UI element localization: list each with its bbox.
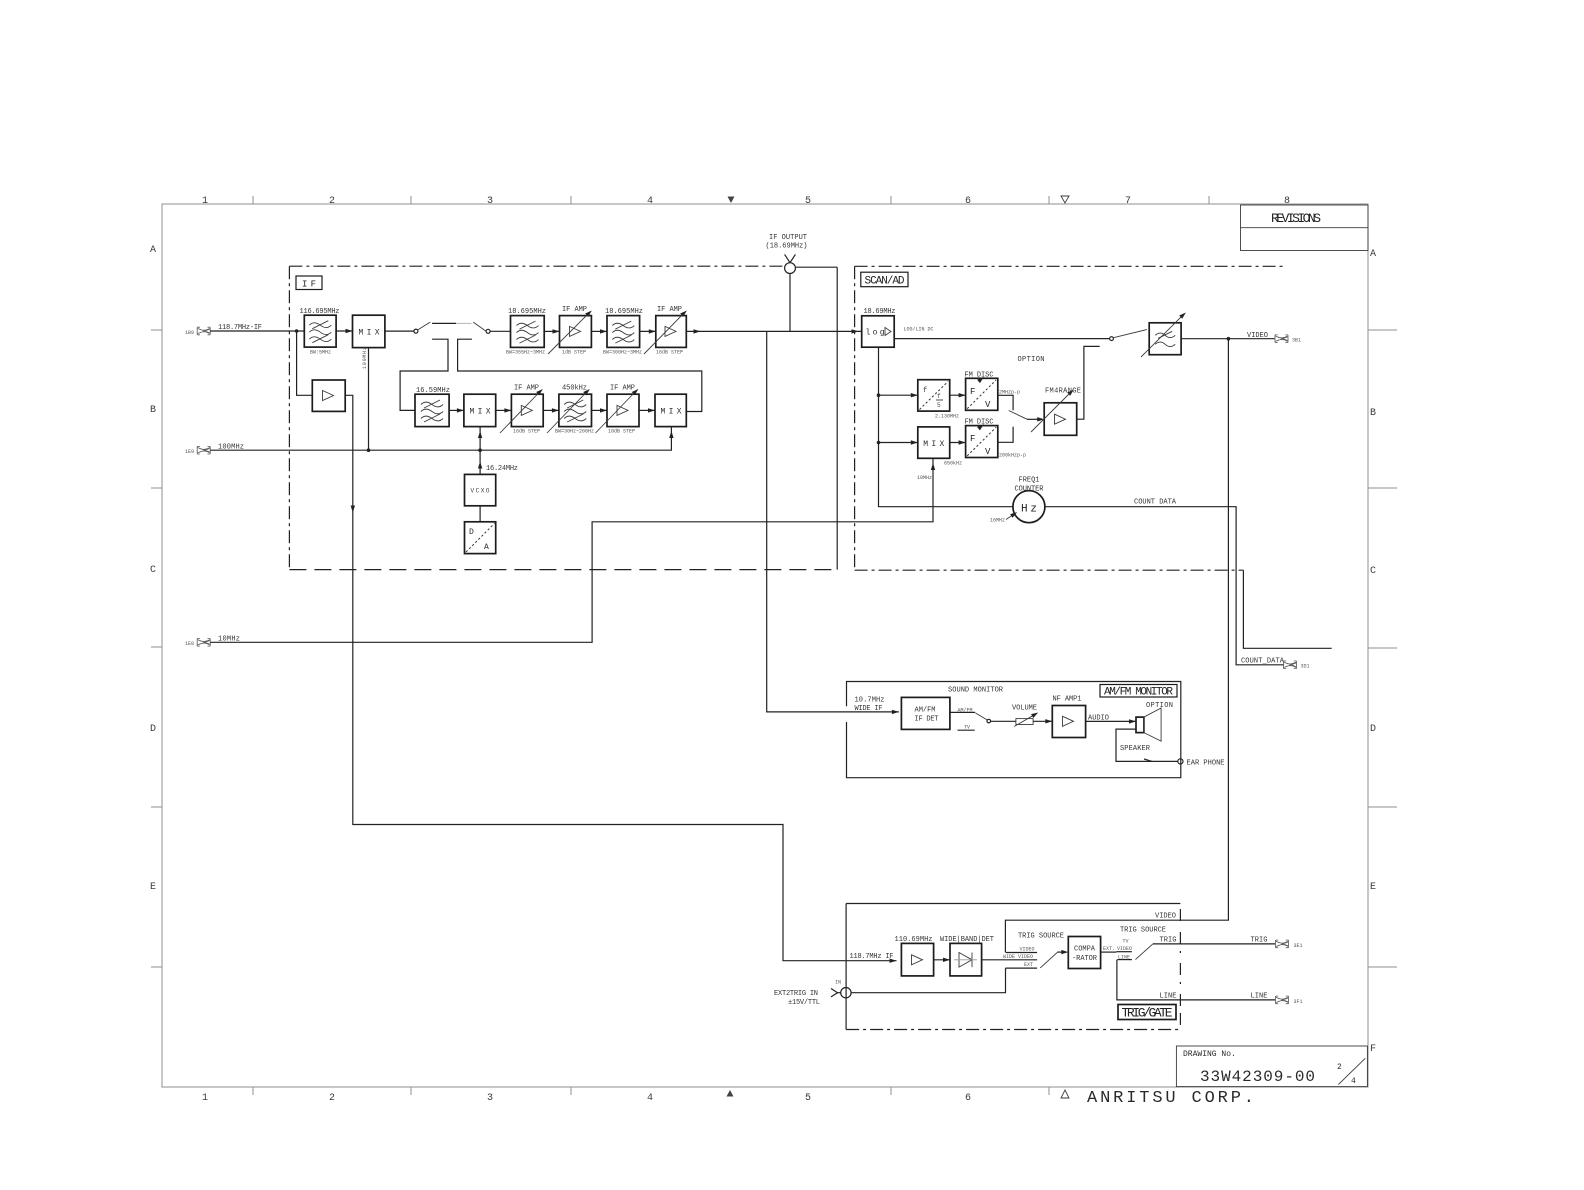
svg-text:3D1: 3D1	[1301, 664, 1310, 670]
mixer MIX3	[655, 394, 686, 426]
SCAN/AD enclosure left edge	[854, 266, 856, 570]
svg-text:TRIG SOURCE: TRIG SOURCE	[1018, 933, 1064, 941]
filter FL5 450kHz	[547, 385, 594, 435]
svg-text:IF AMP: IF AMP	[657, 306, 682, 314]
svg-text:5: 5	[937, 402, 941, 409]
svg-text:650kHz: 650kHz	[944, 461, 962, 467]
wire log amp branch down	[877, 347, 1013, 507]
wire DET output to WIDE VIDEO contact	[982, 954, 1038, 960]
svg-text:COMPA: COMPA	[1074, 946, 1096, 954]
svg-text:VIDEO: VIDEO	[1117, 946, 1132, 952]
svg-text:AUDIO: AUDIO	[1088, 715, 1109, 723]
detector U6 AM/FM IF DET	[901, 697, 950, 729]
svg-text:6: 6	[965, 1093, 971, 1104]
mixer MIX4 (scan)	[918, 427, 950, 458]
wire f/5 to FM DISC1	[950, 393, 966, 397]
svg-text:MIX: MIX	[923, 440, 944, 449]
wire branch to f/5	[879, 393, 918, 397]
TRIG/GATE name box	[1118, 1005, 1176, 1020]
amplifier A8 NF AMP1	[1052, 696, 1085, 738]
wire switch to volume	[991, 720, 1016, 722]
filter FL3 18.695MHz	[603, 308, 643, 356]
wire count data spur	[1243, 570, 1331, 648]
svg-text:16.59MHz: 16.59MHz	[416, 387, 450, 395]
svg-text:BW=300Hz~3MHz: BW=300Hz~3MHz	[603, 350, 642, 356]
svg-text:IF: IF	[302, 280, 316, 290]
wire 100MHz input line	[210, 448, 482, 452]
converter D/A	[465, 522, 496, 554]
svg-text:EXT.: EXT.	[1103, 946, 1115, 952]
comparator U8	[1068, 937, 1100, 969]
svg-text:COUNTER: COUNTER	[1015, 486, 1045, 494]
revision markers	[728, 197, 735, 204]
connector 3E1 TRIG	[1276, 940, 1303, 949]
svg-text:A: A	[1370, 249, 1376, 260]
node IF OUTPUT connector	[766, 234, 808, 331]
potentiometer VOLUME	[1012, 705, 1039, 727]
wire 10.7MHz WIDE IF feed to monitor	[767, 331, 899, 714]
svg-text:log: log	[866, 329, 885, 338]
svg-text:MIX: MIX	[470, 407, 491, 416]
amplifier A5 IF AMP 10dB STEP	[596, 385, 640, 435]
svg-text:VCXO: VCXO	[471, 488, 490, 495]
discriminator U4 FM DISC (F/V)	[965, 419, 1027, 459]
wire 10MHz reference line	[210, 458, 962, 642]
wire A5 to MIX3	[639, 408, 655, 412]
wire LINE output	[1117, 960, 1275, 1001]
wire IF DET to switch	[950, 708, 975, 714]
mixer MIX2	[464, 394, 496, 426]
wire FL4 to MIX2	[449, 408, 464, 412]
svg-text:TV: TV	[1123, 939, 1129, 945]
svg-text:TRIG: TRIG	[1251, 937, 1268, 945]
svg-text:SPEAKER: SPEAKER	[1120, 745, 1151, 753]
amplifier A9 110.69MHz	[895, 936, 934, 976]
amplifier A1 IF AMP 1dB STEP	[548, 306, 593, 356]
wire VIDEO vertical to trig section	[1005, 339, 1228, 953]
wire COUNT DATA output	[1045, 499, 1285, 666]
switch SW6 trig select	[1135, 944, 1152, 960]
svg-text:4: 4	[647, 1093, 653, 1104]
wire MIX3 LO from 100MHz line	[480, 427, 674, 451]
svg-text:WIDE VIDEO: WIDE VIDEO	[1003, 954, 1033, 960]
wire MIX4 to FM DISC2	[950, 440, 966, 444]
amplifier A3 (buffer to trig section)	[312, 380, 345, 411]
svg-text:IF OUTPUT: IF OUTPUT	[769, 234, 807, 242]
svg-text:Hz: Hz	[1021, 504, 1037, 516]
wire FL5 to A5	[592, 408, 608, 412]
svg-text:F: F	[970, 387, 975, 397]
wire IF OUTPUT stem	[789, 274, 791, 332]
wire comparator output	[1101, 946, 1117, 952]
svg-text:OPTION: OPTION	[1018, 356, 1045, 364]
wire A4 to FL5	[543, 408, 559, 412]
svg-text:2: 2	[329, 196, 335, 207]
svg-text:5: 5	[805, 1093, 811, 1104]
svg-text:IN: IN	[835, 980, 841, 986]
wire LOG/LIN DC output	[894, 327, 1109, 339]
connector 1E9 input 100MHz	[185, 444, 244, 456]
svg-text:E: E	[1370, 882, 1376, 893]
svg-text:C: C	[1370, 566, 1376, 577]
svg-text:5: 5	[805, 196, 811, 207]
svg-text:SOUND MONITOR: SOUND MONITOR	[948, 687, 1004, 695]
svg-text:18.695MHz: 18.695MHz	[508, 308, 546, 316]
bottom ticks	[253, 1087, 1049, 1095]
svg-text:2: 2	[329, 1093, 335, 1104]
svg-text:FM4RANGE: FM4RANGE	[1045, 388, 1081, 396]
svg-text:VIDEO: VIDEO	[1155, 913, 1176, 921]
svg-text:100MHz: 100MHz	[362, 347, 368, 369]
svg-text:IF AMP: IF AMP	[514, 385, 539, 393]
switch SW5 trig source	[1040, 950, 1068, 968]
svg-text:BW=355Hz~3MHz: BW=355Hz~3MHz	[506, 350, 545, 356]
node EXT contact	[1006, 962, 1038, 968]
detector U7 WIDE BAND DET	[940, 936, 994, 976]
svg-text:WIDE IF: WIDE IF	[855, 705, 883, 713]
wire main IF line to SCAN/AD log amp	[686, 329, 861, 333]
trig enclosure top edge	[846, 903, 1180, 905]
svg-text:10.7MHz: 10.7MHz	[855, 697, 885, 705]
svg-text:REVISIONS: REVISIONS	[1271, 211, 1321, 226]
svg-text:3: 3	[487, 196, 493, 207]
wire MIX2 to A4	[496, 408, 512, 412]
mixer MIX1	[353, 315, 385, 347]
divider U2 f/5	[918, 380, 959, 420]
node EXT2TRIG IN jack	[774, 980, 851, 1008]
top ticks	[253, 196, 1209, 204]
wire FM DISC1 output contact	[998, 395, 1013, 410]
svg-text:3: 3	[487, 1093, 493, 1104]
svg-text:EAR PHONE: EAR PHONE	[1187, 760, 1225, 768]
wire FM DISC2 output contact	[998, 427, 1013, 443]
svg-text:33W42309-00: 33W42309-00	[1200, 1068, 1315, 1086]
amplifier A2 IF AMP 16dB STEP	[644, 306, 688, 356]
svg-text:450kHz: 450kHz	[562, 385, 587, 393]
svg-text:1E9: 1E9	[185, 449, 194, 455]
svg-text:-RATOR: -RATOR	[1072, 955, 1098, 963]
node EAR PHONE jack	[1178, 759, 1225, 768]
connector 1E8 input 10MHz	[185, 636, 240, 648]
wire MIX1 output to switch	[385, 330, 414, 332]
IF enclosure top edge right solid part	[796, 266, 837, 268]
wire FL2 to IF AMP A1	[544, 329, 559, 333]
svg-text:4: 4	[1351, 1077, 1356, 1086]
node VIDEO contact	[1006, 947, 1037, 953]
wire switch to FL2	[490, 330, 510, 332]
wire input tap down to A3	[297, 331, 313, 395]
IF enclosure left edge	[288, 266, 290, 570]
svg-text:16dB STEP: 16dB STEP	[656, 350, 683, 356]
svg-text:V: V	[985, 447, 991, 457]
svg-text:F: F	[970, 434, 975, 444]
wire 118.7MHz-IF input	[210, 329, 304, 333]
wire FL3 to A2	[640, 329, 656, 333]
counter U5 FREQ1 COUNTER	[990, 477, 1045, 524]
svg-text:V: V	[985, 400, 991, 410]
svg-text:FM DISC: FM DISC	[965, 419, 994, 427]
svg-text:f: f	[923, 387, 927, 395]
svg-text:10dB STEP: 10dB STEP	[608, 429, 635, 435]
svg-text:18.69MHz: 18.69MHz	[864, 308, 896, 316]
wire FL1 to MIX1	[336, 329, 352, 333]
filter FL1 116.695MHz	[300, 308, 340, 356]
node LINE contact	[1117, 955, 1132, 961]
svg-text:TRIG: TRIG	[1160, 937, 1177, 945]
svg-text:2MHzp-p: 2MHzp-p	[999, 390, 1020, 396]
wire A1 to FL3	[591, 329, 607, 333]
filter FL4 16.59MHz	[415, 387, 450, 427]
node EXT.VIDEO contact	[1116, 939, 1132, 953]
svg-text:OPTION: OPTION	[1146, 702, 1173, 710]
svg-text:NF AMP1: NF AMP1	[1053, 696, 1082, 704]
svg-text:118.7MHz IF: 118.7MHz IF	[850, 953, 894, 961]
svg-text:EXT: EXT	[1024, 962, 1033, 968]
filter FL2 18.695MHz	[506, 308, 546, 356]
svg-text:2: 2	[1337, 1063, 1342, 1072]
svg-text:3E1: 3E1	[1294, 943, 1303, 949]
SCAN/AD enclosure top edge	[855, 265, 1283, 267]
IF enclosure right edge	[836, 267, 838, 569]
svg-text:7: 7	[1125, 196, 1131, 207]
svg-text:VIDEO: VIDEO	[1020, 947, 1035, 953]
svg-text:TV: TV	[964, 725, 970, 731]
wire VIDEO output	[1181, 332, 1275, 341]
svg-text:4: 4	[647, 196, 653, 207]
svg-text:±15V/TTL: ±15V/TTL	[788, 999, 820, 1007]
svg-text:E: E	[150, 882, 156, 893]
wire EXT trig input	[851, 968, 1005, 993]
svg-text:F: F	[1370, 1044, 1376, 1055]
svg-text:VOLUME: VOLUME	[1012, 705, 1037, 713]
SCAN/AD section name box	[861, 272, 908, 287]
svg-text:1dB STEP: 1dB STEP	[562, 350, 586, 356]
svg-text:10MHz: 10MHz	[917, 475, 932, 481]
wire AUDIO to speaker	[1086, 715, 1136, 724]
svg-text:1B9: 1B9	[185, 330, 194, 336]
wire branch to MIX4	[879, 440, 918, 444]
trig enclosure bottom edge	[846, 1029, 1180, 1031]
svg-text:B: B	[1370, 408, 1376, 419]
svg-text:f: f	[937, 393, 941, 400]
svg-text:DRAWING No.: DRAWING No.	[1183, 1050, 1236, 1059]
wire VCXO output 16.24MHz up to MIX2	[478, 427, 518, 475]
svg-text:D: D	[150, 724, 156, 735]
connector 1B9 input 118.7MHz-IF	[185, 324, 262, 336]
svg-text:VIDEO: VIDEO	[1247, 332, 1268, 340]
svg-text:1: 1	[202, 1093, 208, 1104]
left/right row ticks	[151, 330, 162, 967]
svg-text:EXT2TRIG IN: EXT2TRIG IN	[774, 990, 818, 998]
wire volume to NF AMP1	[1033, 719, 1052, 723]
svg-text:200kHzp-p: 200kHzp-p	[999, 453, 1026, 459]
svg-text:COUNT_DATA: COUNT_DATA	[1241, 658, 1285, 666]
IF enclosure bottom edge	[289, 569, 837, 571]
wire EAR PHONE tap	[1116, 729, 1178, 761]
svg-text:LOG/LIN DC: LOG/LIN DC	[904, 327, 934, 333]
svg-text:6: 6	[965, 196, 971, 207]
svg-text:COUNT DATA: COUNT DATA	[1134, 499, 1177, 507]
IF enclosure top edge	[289, 265, 784, 267]
svg-text:3B1: 3B1	[1292, 338, 1301, 344]
svg-text:D: D	[469, 528, 474, 537]
trig enclosure right edge (dashed)	[1179, 909, 1181, 1030]
wire A3 output down to trig section	[345, 395, 896, 963]
svg-text:MIX: MIX	[359, 328, 380, 337]
switch SW3 FM range select	[1009, 411, 1044, 422]
amplifier A4 IF AMP 16dB STEP	[500, 385, 544, 435]
svg-text:1E8: 1E8	[185, 641, 194, 647]
svg-text:C: C	[150, 565, 156, 576]
oscillator VCXO	[465, 474, 496, 505]
speaker LS1	[1120, 702, 1173, 753]
svg-text:BW:5MHz: BW:5MHz	[310, 350, 331, 356]
svg-text:BW=30Hz~200Hz: BW=30Hz~200Hz	[555, 429, 594, 435]
svg-text:AM/FM MONITOR: AM/FM MONITOR	[1104, 687, 1173, 699]
svg-text:WIDE|BAND|DET: WIDE|BAND|DET	[940, 936, 994, 944]
switch SW2 video source	[1110, 330, 1147, 341]
IF section name box	[296, 276, 322, 290]
svg-text:16dB STEP: 16dB STEP	[513, 429, 540, 435]
svg-text:D: D	[1370, 724, 1376, 735]
svg-text:MIX: MIX	[661, 407, 682, 416]
svg-text:2.130MHz: 2.130MHz	[935, 414, 959, 420]
amplifier U1 log amp 18.69MHz	[862, 308, 896, 347]
svg-text:SCAN/AD: SCAN/AD	[865, 276, 905, 288]
svg-text:TRIG/GATE: TRIG/GATE	[1122, 1006, 1173, 1021]
svg-text:TRIG SOURCE: TRIG SOURCE	[1120, 927, 1166, 935]
wire switch lower taps	[400, 339, 702, 411]
svg-text:(18.69MHz): (18.69MHz)	[766, 243, 808, 251]
connector 3D1 COUNT_DATA	[1284, 661, 1310, 670]
SCAN/AD enclosure bottom edge	[855, 569, 1244, 571]
connector 3F1 LINE	[1276, 996, 1303, 1005]
trig enclosure left edge	[845, 904, 847, 1030]
svg-text:IF DET: IF DET	[915, 716, 939, 724]
svg-text:FM DISC: FM DISC	[965, 372, 994, 380]
wire FM4RANGE output to switch	[1077, 346, 1100, 419]
discriminator U3 FM DISC (F/V)	[965, 372, 1021, 411]
svg-text:1: 1	[202, 196, 208, 207]
wire A9 to detector	[934, 958, 950, 962]
svg-text:A: A	[150, 245, 156, 256]
wire 100MHz local to MIX1	[362, 347, 369, 450]
svg-text:FREQ1: FREQ1	[1019, 477, 1040, 485]
svg-text:110.69MHz: 110.69MHz	[895, 936, 933, 944]
filter FL6 video lowpass (variable)	[1141, 311, 1187, 357]
svg-text:18.695MHz: 18.695MHz	[605, 308, 643, 316]
svg-text:AM/FM: AM/FM	[958, 708, 973, 714]
svg-text:ANRITSU CORP.: ANRITSU CORP.	[1087, 1089, 1254, 1108]
switch SW1 (IF path select)	[414, 322, 490, 333]
amplifier A7 FM4RANGE	[1031, 388, 1081, 436]
svg-text:A: A	[484, 543, 489, 552]
svg-text:116.695MHz: 116.695MHz	[300, 308, 340, 316]
svg-text:B: B	[150, 405, 156, 416]
switch SW4 monitor mode	[958, 713, 991, 731]
svg-text:16MHz: 16MHz	[990, 518, 1005, 524]
svg-text:IF AMP: IF AMP	[610, 385, 635, 393]
svg-text:16.24MHz: 16.24MHz	[486, 465, 518, 473]
svg-text:LINE: LINE	[1251, 993, 1268, 1001]
svg-text:IF AMP: IF AMP	[562, 306, 587, 314]
connector 3B1 VIDEO	[1275, 335, 1301, 344]
svg-text:3F1: 3F1	[1294, 999, 1303, 1005]
wire VCXO to D/A	[479, 506, 481, 522]
wire TRIG output	[1153, 937, 1275, 945]
svg-text:LINE: LINE	[1160, 993, 1177, 1001]
svg-text:AM/FM: AM/FM	[915, 707, 936, 715]
